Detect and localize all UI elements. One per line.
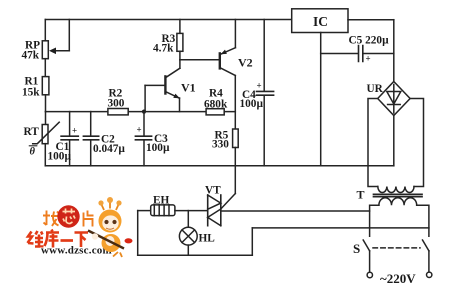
svg-text:HL: HL: [199, 233, 216, 245]
svg-text:100µ: 100µ: [240, 98, 264, 110]
svg-text:4.7k: 4.7k: [153, 43, 174, 55]
svg-text:IC: IC: [313, 14, 328, 29]
svg-text:VT: VT: [205, 185, 221, 197]
svg-text:V1: V1: [181, 81, 196, 95]
svg-text:~220V: ~220V: [380, 271, 416, 286]
svg-text:EH: EH: [153, 195, 170, 207]
svg-text:15k: 15k: [22, 87, 40, 99]
svg-text:V2: V2: [238, 56, 253, 70]
svg-text:θ: θ: [30, 147, 36, 158]
svg-text:S: S: [353, 241, 360, 256]
svg-text:+: +: [257, 81, 262, 91]
svg-text:+: +: [72, 126, 77, 136]
svg-text:UR: UR: [367, 83, 384, 95]
svg-text:0.047µ: 0.047µ: [93, 143, 125, 155]
svg-text:www.dzsc.com: www.dzsc.com: [41, 244, 112, 256]
svg-text:330: 330: [212, 139, 229, 151]
svg-text:RT: RT: [24, 126, 40, 138]
svg-text:C5 220µ: C5 220µ: [349, 35, 390, 47]
svg-text:+: +: [366, 54, 371, 64]
svg-text:T: T: [357, 188, 365, 202]
svg-text:47k: 47k: [22, 50, 40, 62]
svg-text:300: 300: [108, 98, 125, 110]
svg-text:680k: 680k: [204, 99, 228, 111]
svg-text:+: +: [137, 125, 142, 135]
svg-text:100µ: 100µ: [48, 151, 72, 163]
svg-text:100µ: 100µ: [146, 142, 170, 154]
